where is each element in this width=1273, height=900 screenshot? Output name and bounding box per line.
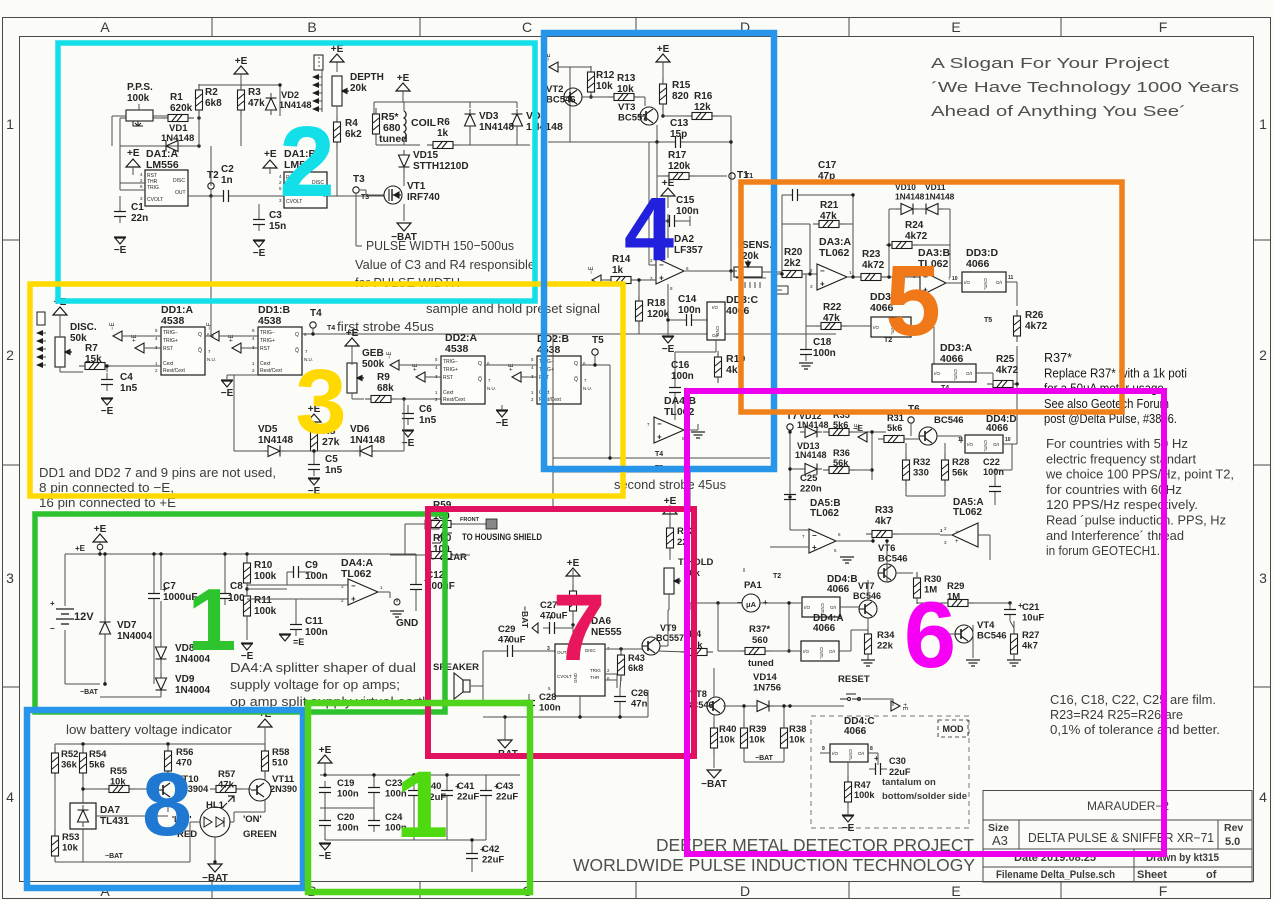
resistor R11 100k (244, 590, 251, 622)
capacitor C29 470uF (501, 645, 519, 657)
svg-text:−E: −E (853, 424, 864, 433)
LED HL1 (200, 807, 230, 837)
svg-text:Sheet: Sheet (1137, 869, 1167, 881)
svg-text:BC546: BC546 (853, 591, 881, 601)
capacitor C40 22uF (408, 784, 420, 802)
power +E (263, 160, 277, 168)
svg-text:TRIG: TRIG (147, 185, 159, 191)
svg-text:R37*: R37* (1044, 350, 1072, 365)
node T6 (908, 417, 914, 423)
transistor VT6 BC546 (878, 564, 896, 582)
wire (904, 438, 919, 440)
wire (905, 454, 907, 460)
supply flag +E (135, 343, 144, 353)
wire (916, 573, 918, 578)
svg-text:VT1: VT1 (407, 181, 426, 192)
resistor R35 5k6 (823, 429, 855, 436)
resistor R2 6k8 (196, 84, 203, 116)
svg-text:C11: C11 (305, 616, 323, 627)
svg-text:R34: R34 (877, 630, 895, 641)
svg-text:R13: R13 (617, 73, 636, 84)
svg-text:TL062: TL062 (341, 568, 372, 580)
svg-text:12V: 12V (74, 611, 94, 623)
wire (871, 470, 873, 480)
svg-text:R27: R27 (1022, 630, 1039, 641)
svg-text:C16, C18, C22, C25 are film.: C16, C18, C22, C25 are film. (1050, 693, 1216, 707)
svg-text:100k: 100k (127, 93, 150, 104)
wire (886, 564, 888, 582)
svg-text:4066: 4066 (813, 623, 836, 634)
ground (799, 363, 813, 369)
connector FRONT (425, 520, 439, 529)
wire (198, 110, 200, 116)
svg-text:DA4:A splitter shaper of dual: DA4:A splitter shaper of dual (230, 660, 416, 675)
svg-text:Rest/Cext: Rest/Cext (260, 368, 283, 374)
wire (160, 646, 162, 647)
svg-text:8: 8 (142, 755, 192, 855)
svg-text:tuned: tuned (379, 133, 408, 145)
svg-text:10k: 10k (62, 843, 79, 854)
diode VD5 1N4148 (263, 446, 285, 457)
svg-text:+E: +E (264, 149, 277, 160)
svg-text:TL062: TL062 (810, 508, 839, 519)
svg-text:A Slogan For Your Project: A Slogan For Your Project (931, 55, 1170, 72)
svg-text:Rest/Cext: Rest/Cext (163, 368, 186, 374)
svg-text:=E: =E (293, 637, 304, 647)
wire (96, 815, 168, 817)
wire (119, 196, 121, 205)
svg-text:11: 11 (958, 437, 964, 443)
svg-text:R10: R10 (254, 560, 273, 571)
svg-text:VD5: VD5 (258, 424, 278, 435)
wire (940, 534, 952, 536)
svg-text:R53: R53 (62, 832, 79, 843)
wire (681, 220, 690, 222)
svg-text:820: 820 (672, 91, 689, 102)
wire (188, 195, 211, 197)
svg-text:330: 330 (913, 468, 929, 479)
resistor R34 22k (865, 628, 872, 660)
svg-text:Cext: Cext (260, 361, 271, 367)
node T4 (310, 322, 316, 328)
diode VD11 1N4148 (921, 204, 943, 215)
svg-text:4: 4 (1259, 789, 1267, 805)
wire (132, 167, 134, 175)
svg-text:C28: C28 (539, 692, 556, 703)
svg-text:1N4148: 1N4148 (895, 191, 925, 201)
diode VD3 1N4148 (465, 109, 476, 131)
svg-text:100k: 100k (854, 790, 875, 800)
resistor R23 4k72 (855, 274, 887, 281)
svg-text:5.0: 5.0 (1225, 836, 1240, 848)
resistor R7 15k (79, 363, 111, 370)
wire (160, 554, 162, 590)
svg-text:VD15: VD15 (413, 150, 438, 161)
transistor VT1 IRF740 (384, 186, 402, 204)
svg-text:−E: −E (101, 406, 114, 417)
power +E (307, 414, 321, 422)
svg-text:C2: C2 (221, 164, 234, 175)
svg-text:+: + (820, 280, 825, 289)
svg-text:T2: T2 (207, 170, 219, 181)
svg-text:6k2: 6k2 (345, 129, 362, 140)
wire (359, 189, 366, 191)
supply flag -E (210, 331, 219, 341)
wire (847, 802, 849, 815)
wire (378, 591, 390, 593)
svg-text:+E: +E (397, 73, 410, 84)
capacitor C4 1n5 (101, 373, 113, 391)
svg-text:C17: C17 (818, 160, 837, 171)
svg-text:56k: 56k (833, 458, 849, 468)
wire (82, 789, 84, 803)
transistor VT9 BC557 (642, 637, 660, 655)
capacitor C24 100n (368, 814, 380, 832)
svg-text:Q̅: Q̅ (198, 347, 202, 354)
wire (717, 648, 719, 651)
svg-text:47n: 47n (631, 699, 648, 710)
svg-text:100k: 100k (254, 606, 277, 617)
node REAR (430, 553, 436, 559)
svg-text:2k2: 2k2 (784, 258, 801, 269)
svg-text:O/I: O/I (712, 333, 718, 338)
wire (233, 375, 235, 451)
svg-text:10: 10 (952, 276, 958, 282)
svg-text:1N4148: 1N4148 (797, 420, 829, 430)
supply flag -E (390, 360, 399, 370)
svg-text:VT4: VT4 (977, 620, 995, 631)
wire (669, 508, 671, 528)
resistor R15 820 (660, 78, 667, 110)
region box 1b (308, 703, 530, 892)
region box 2 (58, 43, 535, 301)
power +E (330, 54, 344, 62)
wire (120, 145, 199, 147)
svg-text:DISC.: DISC. (70, 322, 97, 333)
capacitor C12 100uF (410, 578, 422, 596)
wire (658, 651, 687, 652)
svg-text:4k72: 4k72 (1025, 321, 1048, 332)
wire (684, 429, 698, 431)
transistor VT11 2N3904 (249, 779, 271, 801)
svg-text:O/I: O/I (858, 751, 864, 756)
wire (912, 244, 950, 246)
diode VD14 1N756 (752, 701, 774, 712)
svg-text:C42: C42 (482, 844, 499, 855)
shield symbol (432, 530, 452, 543)
resistor R24 4k72 (886, 242, 918, 249)
power +E (53, 307, 67, 315)
svg-text:FRONT: FRONT (460, 517, 480, 523)
svg-text:22uF: 22uF (482, 855, 504, 866)
wire (483, 716, 648, 718)
battery 12V (56, 609, 74, 624)
svg-text:R22: R22 (823, 302, 842, 313)
svg-text:5k6: 5k6 (833, 420, 848, 430)
capacitor C27 470uF (543, 622, 561, 634)
svg-text:5: 5 (885, 245, 941, 357)
svg-text:A3: A3 (992, 833, 1008, 848)
svg-text:R12: R12 (596, 70, 615, 81)
diode VD2 1N4148 (266, 93, 277, 115)
svg-text:RST: RST (260, 346, 270, 352)
power +E (396, 83, 410, 91)
svg-text:Q: Q (198, 332, 202, 338)
wire (324, 799, 326, 814)
svg-text:−: − (351, 582, 356, 591)
capacitor C42 22uF (466, 847, 478, 865)
power +E (663, 506, 677, 514)
capacitor C41 22uF (441, 784, 453, 802)
svg-text:−: − (820, 267, 825, 276)
svg-text:PA1: PA1 (744, 580, 762, 591)
wire (789, 430, 791, 469)
svg-text:PULSE WIDTH 150−500us: PULSE WIDTH 150−500us (366, 238, 514, 253)
wire (324, 763, 326, 775)
transistor VT2 BC546 (564, 88, 582, 106)
svg-text:T5: T5 (592, 335, 604, 346)
svg-text:4066: 4066 (827, 584, 850, 595)
resistor R59 100 (425, 521, 457, 528)
svg-text:4538: 4538 (445, 343, 469, 355)
svg-text:TL062: TL062 (819, 247, 850, 259)
svg-text:1: 1 (6, 116, 14, 132)
supply flag +E (512, 372, 521, 382)
svg-text:R2: R2 (205, 87, 218, 98)
svg-text:T1: T1 (745, 173, 753, 180)
resistor R33 4k7 (866, 531, 898, 538)
svg-text:−E: −E (842, 823, 855, 834)
svg-text:4: 4 (6, 789, 14, 805)
transistor VT3 BC557 (640, 107, 658, 125)
wire (590, 67, 592, 72)
wire (167, 777, 169, 781)
resistor R39 10k (741, 722, 748, 754)
svg-text:R37*: R37* (749, 624, 770, 635)
wire (521, 376, 537, 378)
svg-text:1n5: 1n5 (120, 383, 138, 394)
svg-text:1n5: 1n5 (419, 415, 437, 426)
svg-text:1N4148: 1N4148 (479, 122, 514, 133)
resistor R57 47k (210, 786, 242, 793)
wire (620, 675, 621, 690)
wire (1006, 281, 1017, 283)
resistor R14 1k (605, 277, 637, 284)
svg-text:36k: 36k (61, 760, 78, 771)
svg-text:+E: +E (75, 544, 86, 553)
svg-text:R26: R26 (1025, 310, 1044, 321)
svg-text:1: 1 (1259, 116, 1267, 132)
svg-text:+: + (955, 539, 959, 545)
svg-text:COIL: COIL (411, 117, 437, 129)
wire (336, 106, 338, 121)
svg-text:SPEAKER: SPEAKER (433, 662, 479, 673)
wire (634, 96, 645, 98)
svg-text:I/O: I/O (934, 371, 941, 376)
resistor R1 620k (162, 115, 194, 122)
svg-text:STTH1210D: STTH1210D (413, 161, 469, 172)
svg-text:Read ´pulse induction. PPS, Hz: Read ´pulse induction. PPS, Hz (1046, 514, 1226, 528)
wire (847, 762, 849, 782)
svg-text:N.U.: N.U. (487, 386, 496, 391)
svg-text:−BAT: −BAT (105, 853, 124, 860)
supply flag +E right (891, 701, 900, 711)
svg-text:C15: C15 (676, 195, 695, 206)
svg-text:7: 7 (553, 575, 606, 681)
svg-text:T4: T4 (655, 451, 663, 458)
resistor R32 330 (903, 454, 910, 486)
svg-text:100n: 100n (983, 467, 1004, 477)
svg-text:Rev: Rev (1224, 822, 1243, 834)
svg-text:RST: RST (163, 346, 173, 352)
supply flag -E (113, 331, 122, 341)
resistor R27 4k7 (1011, 628, 1018, 660)
svg-text:1: 1 (396, 752, 449, 858)
wire (561, 627, 573, 629)
dashed module box (811, 716, 969, 828)
svg-text:C5: C5 (325, 454, 338, 465)
svg-text:−BAT: −BAT (202, 873, 228, 884)
region box 3 (30, 284, 623, 496)
svg-text:−E: −E (387, 351, 393, 359)
svg-text:0,1% of tolerance and better.: 0,1% of tolerance and better. (1050, 723, 1220, 737)
power +E (126, 159, 140, 167)
resistor R54 5k6 (80, 747, 87, 779)
svg-text:Q̅: Q̅ (478, 376, 482, 383)
wire (723, 705, 752, 707)
region box 4 (544, 33, 774, 469)
svg-text:WORLDWIDE PULSE INDUCTION TECH: WORLDWIDE PULSE INDUCTION TECHNOLOGY (573, 855, 975, 875)
svg-text:−E: −E (253, 248, 266, 259)
resistor R40 10k (711, 722, 718, 754)
capacitor C6 1n5 (402, 407, 414, 425)
svg-text:1n: 1n (221, 175, 233, 186)
svg-text:VD14: VD14 (753, 672, 777, 683)
svg-text:620k: 620k (170, 103, 193, 114)
svg-text:15n: 15n (269, 221, 286, 232)
power -E (241, 642, 253, 644)
potentiometer DISC. 50k (55, 337, 72, 367)
inductor COIL (404, 111, 406, 139)
svg-text:10k: 10k (617, 84, 634, 95)
svg-text:100n: 100n (678, 305, 701, 316)
svg-text:R15: R15 (672, 80, 691, 91)
svg-text:6: 6 (904, 582, 956, 687)
svg-text:C: C (522, 19, 532, 35)
node T5 (592, 349, 598, 355)
power -E (842, 814, 854, 816)
wire (663, 115, 693, 117)
svg-text:2: 2 (6, 347, 14, 363)
svg-text:TRIG+: TRIG+ (443, 367, 458, 373)
svg-text:bottom/solder side: bottom/solder side (882, 791, 967, 802)
potentiometer T/HOLD 10k (664, 568, 681, 594)
wire (351, 346, 353, 365)
wire (638, 280, 640, 301)
svg-text:−E: −E (221, 388, 234, 399)
svg-text:100n: 100n (337, 789, 359, 800)
svg-text:BC546: BC546 (934, 415, 964, 426)
svg-text:+E: +E (657, 44, 670, 55)
wire (399, 364, 441, 366)
svg-text:DISC: DISC (173, 178, 185, 184)
svg-text:3: 3 (295, 351, 346, 453)
supply flag +E (232, 343, 241, 353)
svg-text:TRIG−: TRIG− (260, 330, 275, 336)
wire (841, 325, 871, 327)
wire (457, 523, 486, 525)
svg-text:10k: 10k (596, 81, 613, 92)
resistor R5* 680 tuned (373, 108, 380, 140)
svg-text:20k: 20k (350, 83, 367, 94)
svg-text:VD3: VD3 (479, 111, 499, 122)
svg-text:68k: 68k (377, 383, 394, 394)
svg-text:E: E (951, 19, 960, 35)
svg-text:47k: 47k (823, 313, 840, 324)
capacitor C28 100n (523, 694, 535, 712)
svg-text:−E: −E (319, 851, 332, 862)
wire (601, 279, 605, 281)
svg-text:+: + (657, 433, 662, 442)
svg-text:22k: 22k (877, 641, 894, 652)
svg-text:O/I: O/I (829, 649, 835, 654)
svg-text:TO HOUSING SHIELD: TO HOUSING SHIELD (462, 532, 542, 543)
svg-text:3: 3 (547, 646, 550, 652)
resistor R29 1M (942, 600, 974, 607)
capacitor C20 100n (319, 814, 331, 832)
svg-text:+E: +E (346, 328, 359, 339)
svg-text:56k: 56k (952, 468, 969, 479)
svg-text:120k: 120k (647, 309, 670, 320)
wire (120, 117, 168, 119)
power -E (308, 477, 320, 479)
wire (483, 650, 501, 652)
wire (1003, 443, 1012, 445)
svg-text:−: − (50, 624, 55, 633)
wire (403, 204, 405, 221)
wire (892, 533, 940, 535)
svg-text:1k: 1k (612, 265, 624, 276)
svg-text:Q: Q (295, 332, 299, 338)
svg-text:C6: C6 (419, 404, 432, 415)
power -E (114, 236, 126, 238)
svg-text:R39: R39 (749, 724, 766, 735)
svg-text:−BAT: −BAT (755, 755, 774, 762)
wire (258, 204, 260, 213)
resistor R42 22k (667, 522, 674, 554)
potentiometer SENS. 20k (734, 260, 762, 277)
svg-text:TL431: TL431 (100, 816, 129, 827)
svg-text:HL1: HL1 (206, 800, 225, 811)
wire (789, 469, 791, 488)
svg-text:C7: C7 (163, 581, 176, 592)
wire (1013, 383, 1017, 385)
svg-text:supply voltage for op amps;: supply voltage for op amps; (230, 677, 400, 692)
svg-text:−: − (955, 529, 959, 535)
svg-text:VD9: VD9 (175, 674, 195, 685)
svg-text:T2: T2 (773, 573, 781, 580)
svg-text:C18: C18 (813, 337, 832, 348)
capacitor C13 15p (669, 136, 687, 148)
wire (407, 405, 409, 407)
svg-text:+E: +E (94, 524, 107, 535)
diode VD4 1N4148 (512, 109, 523, 131)
svg-text:T4: T4 (310, 308, 322, 319)
resistor R47 100k (845, 776, 852, 808)
svg-text:C43: C43 (496, 781, 513, 792)
svg-text:4066: 4066 (726, 305, 750, 317)
svg-text:VD2: VD2 (281, 90, 299, 100)
